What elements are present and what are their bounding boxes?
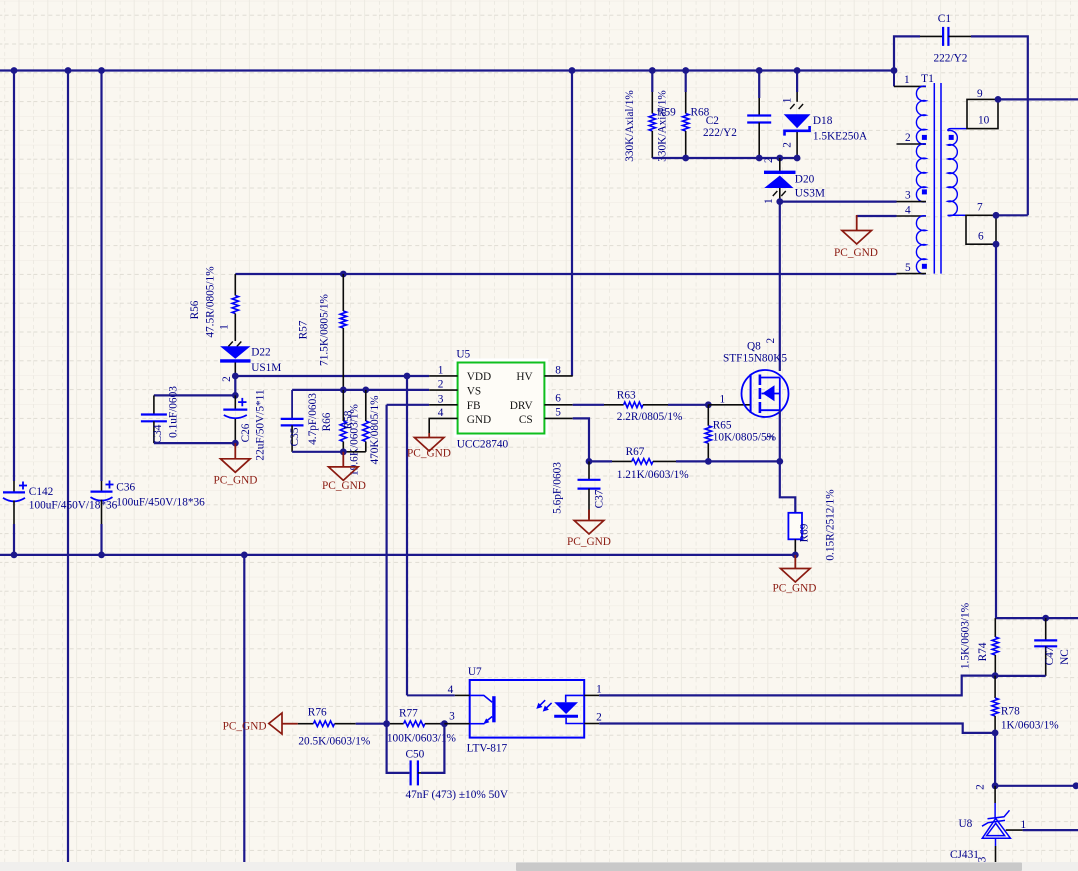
capacitor C35 4.7pF [281,390,304,452]
U7 pin 4 wire [407,694,455,696]
diode D18 TVS 1.5KE250A [784,114,811,135]
U7 pin 4 stub [455,694,470,696]
svg-text:R65: R65 [713,419,732,431]
junction bottom rail / bus4 [241,552,248,559]
scrollbar track [0,862,1078,871]
capacitor C34 [141,395,167,443]
wire C1 right branch [971,36,1028,215]
wire bus column 3 lower [100,524,102,555]
svg-text:0.15R/2512/1%: 0.15R/2512/1% [825,489,837,561]
wire opto collector vertical [406,376,408,695]
C142 plus sign [19,482,27,490]
junction top rail / D18 [794,67,801,74]
U7 light arrows [536,700,551,711]
svg-text:71.5K/0805/1%: 71.5K/0805/1% [319,293,331,365]
capacitor C50 [409,760,421,785]
wire C1 left branch [894,36,920,70]
svg-text:R57: R57 [298,320,310,339]
resistor R78 [992,676,998,733]
svg-text:R56: R56 [189,300,201,319]
junction top rail / bus1 [11,67,18,74]
svg-text:6: 6 [555,393,561,405]
svg-text:2: 2 [763,157,775,163]
junction node gate / R65 [705,401,712,408]
junction node CS sense [586,458,593,465]
svg-text:C26: C26 [240,423,252,442]
wire C47 bottom link [995,675,1046,677]
svg-text:PC_GND: PC_GND [223,721,267,733]
svg-text:C37: C37 [594,489,606,508]
U5 pin 8 stub HV [544,375,572,377]
capacitor C37 [578,461,601,518]
svg-text:PC_GND: PC_GND [773,583,817,595]
wire bus column 2 full height [67,71,69,863]
ground PC_GND at C37 [574,510,604,534]
svg-text:1: 1 [438,365,444,377]
wire drain to T1 pin3 [780,201,897,203]
svg-text:R63: R63 [617,390,636,402]
capacitor C142 [3,481,25,524]
wire source to R69 [780,461,796,512]
wire drain vertical to Q8 [779,202,781,371]
T1 pins 9-10 paralleling box [967,99,998,128]
svg-text:Q8: Q8 [747,340,761,352]
svg-text:9: 9 [977,88,983,100]
svg-text:D18: D18 [813,115,833,127]
svg-text:C36: C36 [116,482,135,494]
diode D20 US3M [764,172,796,201]
junction junction pin7 / C1 [993,212,1000,219]
svg-text:1.5KE250A: 1.5KE250A [813,130,868,142]
svg-text:1.21K/0603/1%: 1.21K/0603/1% [617,469,689,481]
ground PC_GND at VS divider [329,452,359,481]
junction top rail / bus3 [98,67,105,74]
svg-text:2: 2 [975,784,987,790]
svg-text:HV: HV [516,371,533,383]
svg-text:C142: C142 [29,486,54,498]
svg-text:2: 2 [596,712,602,724]
junction snubber rail / C2 [756,155,763,162]
svg-text:0.1uF/0603: 0.1uF/0603 [168,386,180,438]
resistor R57 [340,274,346,390]
svg-text:22uF/50V/5*11: 22uF/50V/5*11 [255,389,267,460]
wire VDD net [235,375,429,377]
svg-text:2: 2 [221,376,233,382]
svg-text:R69: R69 [799,523,811,542]
resistor R77 [390,721,440,727]
junction node U8 cathode [992,782,999,789]
wire C2 top lead [758,71,760,99]
junction node opto diode anode-side [441,720,448,727]
svg-text:2: 2 [905,132,911,144]
C26 plus sign [238,398,246,406]
wire U8 ref net [1023,829,1078,831]
T1 secondary bottom connection to pin 7 [948,214,966,216]
wire HV net vertical [571,71,573,376]
junction bottom rail / bus3 [98,552,105,559]
wire C50 loop left [387,724,410,773]
svg-text:3: 3 [977,856,989,862]
wire opto pin2 net [599,724,995,733]
svg-text:R67: R67 [626,446,645,458]
junction node FB divider [383,720,390,727]
capacitor C1 [920,27,971,46]
svg-text:US1M: US1M [251,362,281,374]
svg-text:VDD: VDD [467,371,491,383]
T1 pin 5 polarity dot [922,264,927,269]
svg-text:5.6pF/0603: 5.6pF/0603 [551,462,563,514]
svg-text:1K/0603/1%: 1K/0603/1% [1001,720,1059,732]
diode D18 leads [796,71,798,159]
junction snubber rail / D18 [794,155,801,162]
D20 anode marks [773,191,786,196]
ground PC_GND at C26 [221,443,251,472]
svg-text:2: 2 [782,142,794,148]
svg-text:PC_GND: PC_GND [567,536,611,548]
wire bus column 1 [13,71,15,482]
svg-text:100K/0603/1%: 100K/0603/1% [387,733,457,745]
T1 pin 2 polarity dot [922,135,927,140]
wire R68 top lead [685,71,687,93]
svg-text:330K/Axial/1%: 330K/Axial/1% [624,90,636,162]
svg-text:1: 1 [596,683,602,695]
T1 pin 4 stub [897,215,927,217]
svg-text:C35: C35 [289,427,301,446]
wire opto pin1 net [599,676,995,696]
svg-text:3: 3 [449,711,455,723]
junction top rail / R59 [649,67,656,74]
junction VS / R58 [362,387,369,394]
U5 pin 1 stub VDD [429,375,457,377]
junction node drain top [776,198,783,205]
svg-text:UCC28740: UCC28740 [457,439,509,451]
svg-text:C47: C47 [1044,646,1056,665]
svg-text:PC_GND: PC_GND [834,247,878,259]
wire CS net [573,418,589,461]
junction node Q8 source [776,458,783,465]
svg-text:PC_GND: PC_GND [322,480,366,492]
resistor R63 [604,402,668,408]
wire VDD cap branch [234,376,236,395]
transistor Q8 STF15N80K5 [742,370,789,417]
svg-text:10: 10 [978,115,990,127]
resistor R69 0.15R shunt [788,513,802,555]
T1 secondary top connection to pin 10 [948,129,967,131]
U5 pin 6 stub DRV [544,404,572,406]
svg-text:PC_GND: PC_GND [407,448,451,460]
svg-text:D20: D20 [795,174,815,186]
junction top rail / bus2 [65,67,72,74]
T1 aux winding (pins 4-5) [916,216,926,274]
wire sense net [708,460,780,462]
wire R78 to U8 cathode [994,733,996,786]
U7 pin 3 stub [444,723,469,725]
svg-text:C50: C50 [406,749,425,761]
svg-text:4.7pF/0603: 4.7pF/0603 [307,393,319,445]
junction node R65 bottom [705,458,712,465]
junction snubber rail / D20 [776,155,783,162]
svg-text:1: 1 [219,324,231,330]
svg-text:4: 4 [438,407,444,419]
wire bus column 4 [243,555,245,862]
wire FB vertical to opto divider [386,405,388,724]
svg-text:3: 3 [765,435,777,441]
wire T1 pin4 to ground [857,215,897,217]
svg-text:2: 2 [438,379,444,391]
T1 primary winding lower (pins 2-3) [916,144,926,202]
svg-text:8: 8 [555,365,561,377]
svg-text:U8: U8 [959,818,973,830]
wire R67 to source node [676,460,708,462]
wire secondary return long vertical [995,244,997,618]
svg-text:7: 7 [977,202,983,214]
svg-text:1: 1 [763,198,775,204]
wire DRV net [573,404,604,406]
junction junction pin6 down wire [993,241,1000,248]
svg-text:VS: VS [467,385,481,397]
resistor R56 [232,274,238,341]
wire R77 right link [440,723,444,725]
D22 anode marks [228,342,241,347]
T1 primary winding upper (pins 1-2) [916,86,926,144]
svg-text:LTV-817: LTV-817 [467,743,508,755]
junction VDD / opto collector [404,373,411,380]
wire aux winding net [235,273,896,275]
wire secondary output from pin 9 [998,98,1078,100]
resistor R58 [343,390,369,452]
wire C34 top link [154,394,235,396]
wire bus column 3 [100,71,102,482]
svg-text:2.2R/0805/1%: 2.2R/0805/1% [617,411,683,423]
svg-text:CS: CS [519,414,533,426]
U5 pin 2 stub VS [429,389,457,391]
U7 pin 2 stub [584,723,599,725]
D18 anode marks [790,104,803,109]
svg-text:T1: T1 [921,72,934,85]
resistor R65 [705,405,711,462]
svg-text:R74: R74 [977,642,989,661]
junction top rail / HV wire [569,67,576,74]
wire VS net [292,389,429,391]
svg-text:CJ431: CJ431 [950,849,979,861]
svg-text:222/Y2: 222/Y2 [703,127,737,139]
svg-text:2: 2 [765,338,777,344]
junction top wire / C47 [1042,615,1049,622]
wire gate net [668,404,708,406]
wire U8 cathode net right [995,785,1078,787]
resistor R59 [649,92,655,158]
T1 pin 1 wire from rail corner [893,71,895,87]
U7 phototransistor [470,695,496,724]
junction junction pin9 output [995,96,1002,103]
svg-text:R78: R78 [1001,706,1020,718]
ground PC_GND at R69 [781,555,811,582]
svg-text:DRV: DRV [510,400,534,412]
diode D20 cathode lead [779,158,781,171]
svg-text:STF15N80K5: STF15N80K5 [723,352,787,364]
ground PC_GND at T1 pin4 [842,215,872,244]
ground PC_GND at U5 GND pin [414,433,444,451]
svg-text:222/Y2: 222/Y2 [934,52,968,64]
svg-text:47nF (473) ±10% 50V: 47nF (473) ±10% 50V [406,789,509,801]
junction top rail / R68 [682,67,689,74]
scrollbar thumb [516,863,1022,871]
junction node VDD at D22 [232,373,239,380]
U5 pin 3 stub FB [429,404,457,406]
wire C50 loop right [421,724,444,773]
svg-text:3: 3 [905,190,911,202]
svg-text:R66: R66 [321,412,333,431]
svg-text:330K/Axial/1%: 330K/Axial/1% [657,90,669,162]
wire R76 to FB node [356,723,387,725]
svg-text:FB: FB [467,400,481,412]
svg-text:R76: R76 [308,706,327,718]
wire AC bus top rail [0,69,894,71]
resistor R74 [992,618,998,676]
junction VS / R66 [340,387,347,394]
svg-text:NC: NC [1059,649,1071,665]
svg-text:GND: GND [467,414,491,426]
junction node opto bias [992,672,999,679]
U5 pin 5 stub CS [544,417,572,419]
svg-text:100uF/450V/18*36: 100uF/450V/18*36 [116,497,205,509]
T1 pin 3 stub [897,201,927,203]
svg-text:6: 6 [978,230,984,242]
wire bus column 1 lower [13,524,15,555]
junction node VS divider ground [340,448,347,455]
wire snubber bottom rail [652,157,797,159]
capacitor C36 [91,481,113,524]
T1 secondary polarity dot [949,135,954,140]
junction bottom rail / bus1 [11,552,18,559]
capacitor C47 [1034,618,1057,676]
U5 pin 4 stub GND [429,418,457,433]
T1 core lines [934,83,941,274]
svg-text:1: 1 [720,394,726,406]
svg-text:47.5R/0805/1%: 47.5R/0805/1% [205,266,217,338]
C36 plus sign [106,481,114,489]
resistor R67 [612,459,676,465]
junction node U8 cathode right edge [1073,782,1078,789]
T1 pin 2 stub [897,143,927,145]
svg-text:5: 5 [555,406,561,418]
svg-text:R58: R58 [343,410,355,429]
svg-text:C2: C2 [706,115,720,127]
junction node R69 bottom rail [792,552,799,559]
wire Q8 source wire [779,410,781,461]
junction aux / R57 [340,271,347,278]
svg-text:US3M: US3M [795,188,825,200]
svg-text:5: 5 [905,262,911,274]
diode D22 US1M [220,346,250,361]
capacitor C26 22uF polarized [223,395,247,443]
gate lead to Q8 [708,404,750,406]
svg-text:4: 4 [905,204,911,216]
resistor R68 [683,92,689,158]
junction snubber rail / R68 [682,155,689,162]
T1 secondary winding [948,130,958,215]
U7 pin 1 stub [584,694,599,696]
svg-text:3: 3 [438,393,444,405]
op-amp U5 UCC28740 body [456,361,547,436]
svg-text:1.5K/0603/1%: 1.5K/0603/1% [960,602,972,669]
wire secondary V+ top wire [995,617,1078,619]
svg-text:20.5K/0603/1%: 20.5K/0603/1% [298,735,370,747]
junction top rail corner to C1 and T1 [891,67,898,74]
svg-text:U5: U5 [456,349,470,361]
svg-text:470K/0805/1%: 470K/0805/1% [369,395,381,465]
wire R59 top lead [651,71,653,93]
wire CS to R67 [589,460,612,462]
svg-text:C1: C1 [938,13,951,25]
wire C34 bottom link [154,442,235,444]
wire pin7 to C1 branch [996,214,1028,216]
wire bottom DC rail [0,554,795,556]
svg-text:U7: U7 [468,666,482,678]
junction node C26 bottom [232,440,239,447]
junction node C26 top [232,392,239,399]
svg-text:1: 1 [782,98,794,104]
junction top rail / C2 [756,67,763,74]
T1 pins 7-6 paralleling box [966,215,996,244]
resistor R66 [340,390,346,452]
svg-text:R77: R77 [399,708,418,720]
svg-text:100uF/450V/18*36: 100uF/450V/18*36 [29,500,118,512]
junction node R78 bottom [992,730,999,737]
svg-text:D22: D22 [251,347,271,359]
svg-text:1: 1 [904,74,910,86]
U7 LED [554,695,584,723]
optocoupler U7 LTV-817 body [470,680,585,738]
T1 pin 1 stub [894,85,926,87]
svg-text:PC_GND: PC_GND [214,475,258,487]
wire C35 bottom link [292,451,343,453]
wire FB net [387,404,430,406]
T1 pin 5 stub [897,273,927,275]
shunt regulator U8 CJ431 [982,786,1023,862]
capacitor C2 [747,98,771,158]
T1 pin 3 polarity dot [922,189,927,194]
resistor R76 [298,721,356,727]
ground PC_GND left-pointing at R76 [269,713,298,734]
svg-text:C34: C34 [152,424,164,443]
D22 cathode lead [234,363,236,377]
